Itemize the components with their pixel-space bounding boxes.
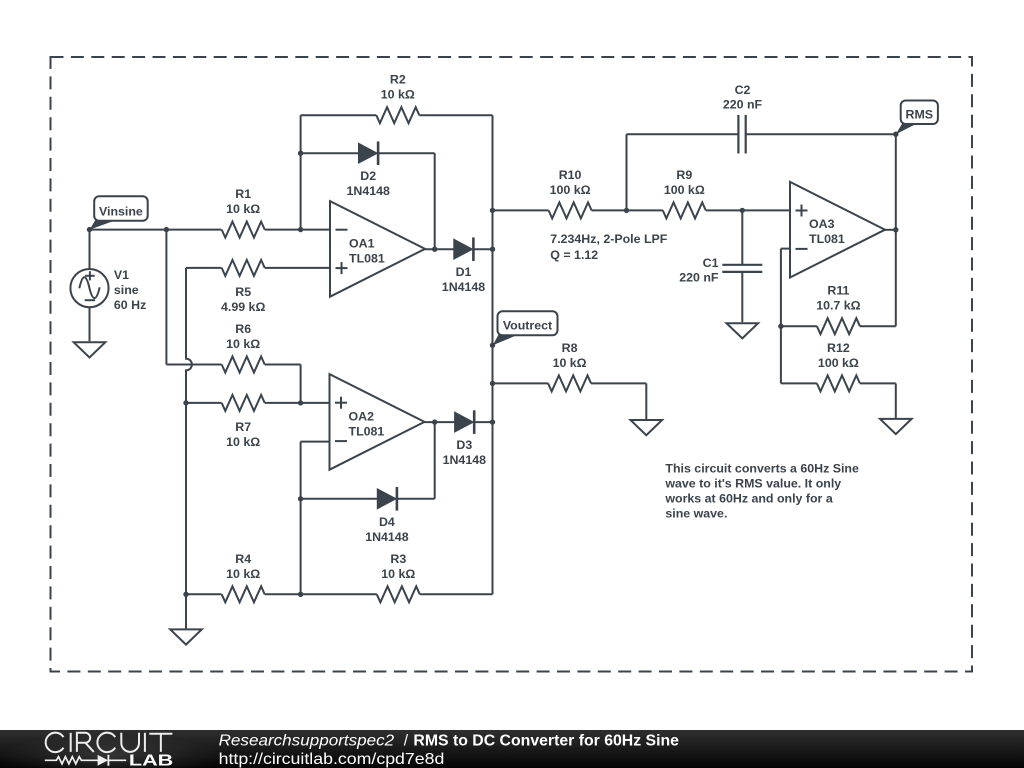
wire R4 left lead <box>186 593 222 595</box>
wire R5 left lead <box>186 267 222 269</box>
wire C2 tap column <box>626 134 628 210</box>
wire OA2 output to D3 <box>425 421 455 423</box>
wire D4 anode lead <box>301 498 378 500</box>
diode D3 <box>455 410 475 434</box>
diode D4 <box>377 487 397 511</box>
wire OA2 output down to D4 <box>434 422 436 499</box>
wire D3 cathode to rail <box>474 421 492 423</box>
junction OA2 output node <box>432 419 437 424</box>
wire R1 to OA1 inverting input <box>265 229 330 231</box>
wire OA3 output lead <box>885 229 896 231</box>
diode D2 <box>359 141 379 165</box>
junction Voutrect node <box>490 343 495 348</box>
svg-text:RMS: RMS <box>906 107 934 121</box>
wire R8 right lead <box>591 382 646 384</box>
wire C2 left lead <box>627 133 739 135</box>
resistor R9 <box>663 202 706 218</box>
CircuitLab logo wordmark CIRCUIT (thin geometric letters) <box>46 732 173 751</box>
wire R11 left lead <box>781 325 817 327</box>
svg-text:http://circuitlab.com/cpd7e8d: http://circuitlab.com/cpd7e8d <box>219 750 445 767</box>
resistor R4 <box>222 586 265 602</box>
wire R6 to node <box>265 364 301 366</box>
junction OA3 output node <box>893 227 898 232</box>
wire D1 cathode to rail <box>473 248 492 250</box>
wire OA2 inverting input lead <box>301 441 330 443</box>
wire D4 cathode lead <box>398 498 435 500</box>
resistor R10 <box>549 202 592 218</box>
junction R11 left node <box>778 324 783 329</box>
junction D1 cathode node <box>490 247 495 252</box>
wire OA2 inverting column to R4 node <box>300 442 302 595</box>
wire R5 to OA1 noninverting input <box>265 267 330 269</box>
wire D2 anode lead <box>301 152 359 154</box>
junction R4-R3 node <box>298 592 303 597</box>
junction Vinsine node <box>87 227 92 232</box>
wire R12 right lead <box>860 382 896 384</box>
wire R2 feedback right <box>419 114 492 116</box>
ground GND C1 <box>727 323 759 338</box>
wire R2-D2 branch down to R1 node <box>300 115 302 229</box>
junction D2 anode node <box>298 151 303 156</box>
junction D4 anode node <box>298 496 303 501</box>
op-amp OA3 <box>790 182 885 278</box>
wire R10 left lead <box>493 209 549 211</box>
voltage source V1 <box>70 269 108 307</box>
wire R7 left lead <box>186 402 222 404</box>
ground GND R8 <box>631 420 663 435</box>
op-amp OA1 <box>330 201 425 297</box>
junction RMS node <box>893 132 898 137</box>
ground GND V1 <box>74 342 106 357</box>
wire R3 to rail <box>420 593 493 595</box>
wire R11 right lead <box>860 325 896 327</box>
resistor R5 <box>222 260 265 276</box>
junction rail-R10 node <box>490 208 495 213</box>
wire C1 bottom lead to ground <box>741 272 743 322</box>
resistor R3 <box>377 586 420 602</box>
wire OA3 inverting input lead <box>781 248 790 250</box>
wire R2 feedback left <box>301 114 377 116</box>
node flag RMS <box>896 101 938 135</box>
schematic border frame <box>51 57 973 672</box>
footer bar <box>0 730 1024 768</box>
wire ground rail stem <box>185 594 187 628</box>
wire RMS rail <box>895 134 897 326</box>
junction rail-R8 node <box>490 381 495 386</box>
wire V1 bottom lead to ground <box>89 307 91 341</box>
wire R6 row <box>166 364 221 366</box>
svg-text:LAB: LAB <box>129 752 173 768</box>
svg-text:Researchsupportspec2 / RMS to: Researchsupportspec2 / RMS to DC Convert… <box>219 732 680 749</box>
svg-text:Voutrect: Voutrect <box>503 319 552 333</box>
wire D2 cathode down to OA1 output <box>434 153 436 249</box>
wire C2 right lead to RMS node <box>746 133 896 135</box>
wire C1 top lead <box>741 210 743 264</box>
ground GND R12 <box>880 419 912 434</box>
junction R7 left node <box>183 400 188 405</box>
capacitor C2 <box>738 115 745 154</box>
wire D2 cathode lead <box>379 152 435 154</box>
diode D1 <box>454 237 474 261</box>
node flag Vinsine <box>90 196 148 229</box>
junction C2 tap node <box>624 208 629 213</box>
wire OA3 inverting column <box>780 249 782 384</box>
wire R7 to OA2 noninverting input <box>265 402 330 404</box>
wire R12 ground stem <box>895 383 897 418</box>
junction OA1 output node <box>432 247 437 252</box>
capacitor C1 <box>722 265 762 272</box>
junction Vinsine-R6 branch <box>164 227 169 232</box>
wire ground rail lower <box>185 403 187 594</box>
wire Vinsine row to R1 <box>90 229 222 231</box>
node flag Voutrect <box>493 311 558 345</box>
resistor R12 <box>817 375 860 391</box>
resistor R2 <box>376 107 419 123</box>
resistor R8 <box>548 375 591 391</box>
wire Vinsine branch down to R6 <box>165 230 167 365</box>
wire ground rail upper with hop over R6 <box>186 268 192 403</box>
CircuitLab logo resistor-diode squiggle <box>45 754 126 765</box>
junction R4 left node <box>183 592 188 597</box>
op-amp OA2 <box>330 374 425 470</box>
wire Voutrect rail <box>492 115 494 594</box>
resistor R6 <box>222 357 265 373</box>
junction R7-R6 node <box>298 400 303 405</box>
wire R8 ground stem <box>645 383 647 419</box>
junction R1-feedback node <box>298 227 303 232</box>
junction C1 tap node <box>740 208 745 213</box>
junction D3 cathode node <box>490 419 495 424</box>
wire OA1 output to D1 <box>425 248 454 250</box>
resistor R11 <box>817 318 860 334</box>
resistor R1 <box>222 222 265 238</box>
wire R12 left lead <box>781 382 817 384</box>
svg-text:Vinsine: Vinsine <box>99 204 143 218</box>
wire V1 top lead <box>89 230 91 269</box>
wire R9 to OA3 noninverting input <box>706 209 790 211</box>
wire R4 to R3 <box>265 593 377 595</box>
resistor R7 <box>222 395 265 411</box>
wire R8 left lead <box>493 382 549 384</box>
ground GND rail <box>170 629 202 644</box>
wire R6-R7 junction column <box>300 365 302 403</box>
wire R10 to R9 <box>592 209 663 211</box>
